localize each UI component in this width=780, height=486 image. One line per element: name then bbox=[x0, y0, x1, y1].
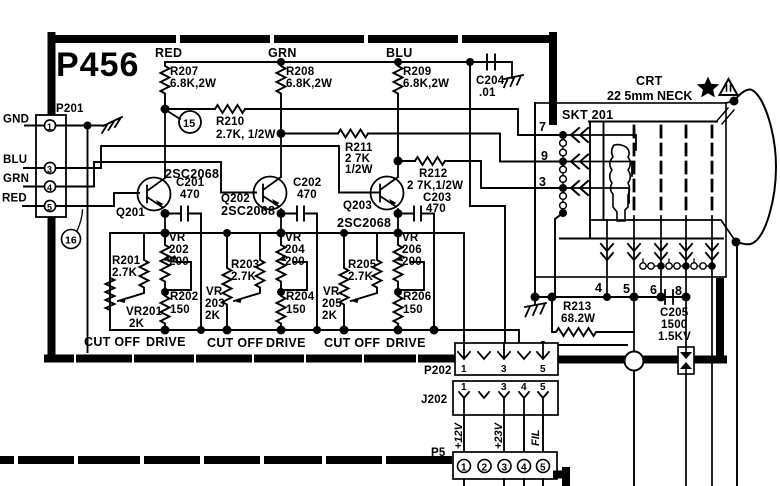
ground chassis symbol at C204 bbox=[504, 62, 523, 87]
wire CRT anode down bbox=[736, 242, 738, 486]
bottom section dashed border bbox=[0, 460, 566, 486]
svg-text:6.8K,2W: 6.8K,2W bbox=[170, 78, 216, 90]
J202 contact 1 bbox=[459, 392, 469, 415]
svg-text:R213: R213 bbox=[563, 301, 591, 313]
svg-text:R207: R207 bbox=[170, 66, 198, 78]
ground bus under socket bbox=[535, 103, 686, 297]
wire ground rail to chassis bbox=[434, 330, 627, 345]
svg-text:RED: RED bbox=[155, 46, 182, 60]
node VR202 top bbox=[161, 229, 170, 238]
svg-text:4: 4 bbox=[521, 463, 527, 474]
svg-text:BLU: BLU bbox=[3, 154, 27, 166]
svg-text:6.8K,2W: 6.8K,2W bbox=[286, 78, 332, 90]
bottom section border corner after P5 bbox=[557, 471, 566, 486]
svg-text:CRT: CRT bbox=[636, 74, 663, 88]
potentiometer VR205 bbox=[340, 233, 349, 330]
J202 contact 3 bbox=[499, 392, 509, 415]
svg-text:15: 15 bbox=[183, 118, 195, 130]
P202 contact 5 bbox=[537, 343, 549, 359]
SKT pin9 row bbox=[560, 162, 632, 177]
resistor R206 bbox=[394, 292, 403, 330]
J202 contact 2 bbox=[479, 392, 489, 398]
feedthrough circle on border bbox=[625, 352, 644, 371]
connector P5 box bbox=[453, 452, 557, 479]
callout circle 16 bbox=[62, 230, 81, 249]
svg-text:1: 1 bbox=[47, 122, 52, 132]
svg-text:7: 7 bbox=[539, 120, 546, 134]
svg-text:3: 3 bbox=[501, 364, 507, 375]
wire GRN input pin4 to Q202 base bbox=[56, 162, 256, 193]
SKT spare contact circles bbox=[560, 135, 567, 211]
node Q203 collector bbox=[394, 157, 403, 166]
svg-text:VR: VR bbox=[285, 232, 302, 244]
P202 contact 2 bbox=[478, 352, 490, 359]
svg-text:3: 3 bbox=[539, 175, 546, 189]
connector P202 box bbox=[455, 343, 558, 375]
potentiometer VR206 bbox=[394, 233, 403, 292]
svg-text:R203: R203 bbox=[231, 259, 259, 271]
node CRT anode bottom bbox=[732, 238, 741, 247]
P5 pin 5 bbox=[537, 460, 550, 473]
CRT base pin wires with plug arrows bbox=[607, 216, 712, 486]
svg-text:SKT 201: SKT 201 bbox=[562, 108, 613, 122]
capacitor C203 bbox=[398, 207, 434, 331]
SKT pin3 row bbox=[560, 188, 629, 203]
transistor Q201 bbox=[116, 109, 219, 233]
svg-text:3: 3 bbox=[502, 463, 508, 474]
svg-text:2SC2068: 2SC2068 bbox=[221, 204, 275, 218]
svg-text:+23V: +23V bbox=[493, 421, 505, 449]
svg-text:3: 3 bbox=[501, 382, 507, 393]
svg-text:GRN: GRN bbox=[268, 46, 297, 60]
capacitor C205 bbox=[661, 290, 686, 304]
svg-text:DRIVE: DRIVE bbox=[146, 335, 186, 349]
svg-text:1/2W: 1/2W bbox=[345, 164, 373, 176]
svg-text:9: 9 bbox=[541, 149, 548, 163]
warning triangle symbol bbox=[720, 79, 738, 95]
svg-text:2K: 2K bbox=[322, 310, 338, 322]
ground chassis symbol at P201 bbox=[102, 117, 122, 133]
connector J202 box bbox=[453, 381, 558, 415]
svg-text:1.5KV: 1.5KV bbox=[658, 331, 691, 343]
svg-text:205: 205 bbox=[322, 298, 342, 310]
svg-text:FIL: FIL bbox=[530, 429, 542, 446]
spark gap bbox=[678, 347, 694, 486]
svg-text:2.7K, 1/2W: 2.7K, 1/2W bbox=[216, 129, 276, 141]
svg-text:6: 6 bbox=[650, 283, 657, 297]
svg-text:J202: J202 bbox=[421, 394, 447, 406]
svg-text:C202: C202 bbox=[293, 177, 321, 189]
svg-text:GRN: GRN bbox=[3, 173, 29, 185]
svg-text:2.7K: 2.7K bbox=[112, 267, 138, 279]
node Q201 emitter bbox=[161, 209, 170, 218]
svg-text:R205: R205 bbox=[348, 259, 377, 271]
capacitor C201 bbox=[165, 207, 201, 331]
svg-text:Q201: Q201 bbox=[116, 207, 145, 219]
P201 pin 1 bbox=[44, 120, 55, 131]
board P456 outline bottom-left dashed border bbox=[48, 355, 452, 363]
resistor R208 bbox=[277, 62, 286, 134]
wire BLU input pin3 to Q203 base bbox=[56, 146, 380, 193]
svg-text:2K: 2K bbox=[129, 318, 145, 330]
svg-text:22 5mm NECK: 22 5mm NECK bbox=[607, 89, 692, 103]
potentiometer VR202 bbox=[161, 233, 170, 292]
capacitor C204 bbox=[470, 55, 512, 70]
P5 pin 4 bbox=[518, 460, 531, 473]
resistor R213 bbox=[552, 297, 634, 336]
svg-text:3: 3 bbox=[47, 165, 52, 175]
svg-text:VR: VR bbox=[169, 232, 186, 244]
resistor R210 wire to SKT pin7 bbox=[165, 109, 560, 135]
svg-text:5: 5 bbox=[540, 463, 546, 474]
CRT gun electrode shape bbox=[610, 145, 631, 221]
node Q203 emitter bbox=[394, 209, 403, 218]
node VR204 bottom bbox=[277, 288, 285, 296]
node P202 pin5 junction bbox=[539, 341, 547, 349]
wire GND pin1 to ground bbox=[56, 125, 103, 127]
svg-text:C205: C205 bbox=[660, 307, 689, 319]
board P456 outline left border bbox=[48, 36, 56, 358]
svg-text:VR201: VR201 bbox=[126, 306, 163, 318]
svg-text:5: 5 bbox=[47, 203, 52, 213]
P201 pin 4 bbox=[44, 181, 55, 192]
svg-text:R210: R210 bbox=[216, 116, 244, 128]
P202 contact 3 bbox=[498, 343, 510, 359]
P202 contact 1 bbox=[458, 343, 470, 359]
svg-text:R206: R206 bbox=[403, 291, 431, 303]
P202 contact 4 bbox=[518, 352, 530, 359]
P5 pin 2 bbox=[478, 460, 491, 473]
svg-text:P201: P201 bbox=[56, 103, 84, 115]
svg-text:GND: GND bbox=[3, 114, 29, 126]
board P456 outline bottom border right solid segment bbox=[558, 282, 723, 360]
resistor R211 wire to SKT pin9 bbox=[281, 134, 560, 162]
node GND junction bbox=[84, 122, 92, 130]
P5 pin 1 bbox=[458, 460, 471, 473]
node Q202 emitter bbox=[277, 209, 286, 218]
wire GND label to pin1 bbox=[25, 125, 44, 127]
svg-text:R209: R209 bbox=[403, 66, 431, 78]
P201 pin 3 bbox=[44, 162, 55, 173]
svg-text:R212: R212 bbox=[419, 168, 447, 180]
svg-text:C204: C204 bbox=[476, 75, 505, 87]
svg-text:2 7K,1/2W: 2 7K,1/2W bbox=[407, 180, 463, 192]
svg-text:R201: R201 bbox=[112, 255, 141, 267]
svg-text:16: 16 bbox=[65, 235, 77, 247]
svg-text:RED: RED bbox=[2, 193, 27, 205]
node C204 rail junction bbox=[466, 58, 474, 66]
wire RED label to pin5 bbox=[23, 205, 44, 207]
svg-text:150: 150 bbox=[403, 304, 423, 316]
svg-text:2K: 2K bbox=[205, 310, 221, 322]
resistor R205 bbox=[351, 233, 382, 301]
svg-text:P202: P202 bbox=[424, 365, 452, 377]
resistor R207 bbox=[161, 62, 170, 109]
CRT outline bbox=[592, 101, 736, 242]
resistor R212 wire to SKT pin3 bbox=[398, 161, 560, 188]
svg-text:R204: R204 bbox=[286, 291, 315, 303]
wire GRN label to pin4 bbox=[24, 186, 44, 188]
svg-text:2.7K: 2.7K bbox=[348, 271, 374, 283]
svg-text:5: 5 bbox=[623, 282, 630, 296]
svg-text:R202: R202 bbox=[170, 291, 198, 303]
node VR202 bottom bbox=[161, 288, 169, 296]
svg-text:+12V: +12V bbox=[453, 421, 465, 449]
wire BLU label to pin3 bbox=[24, 167, 44, 169]
node Q202 collector bbox=[277, 129, 286, 138]
resistor R209 bbox=[394, 62, 403, 161]
svg-text:1: 1 bbox=[461, 463, 467, 474]
wire supply to P202 pin3 bbox=[470, 62, 505, 343]
bottom ground rail bbox=[110, 233, 434, 330]
capacitor C202 bbox=[281, 207, 317, 331]
CRT neck break hatches bbox=[716, 108, 734, 124]
svg-text:DRIVE: DRIVE bbox=[266, 336, 306, 350]
svg-text:CUT OFF: CUT OFF bbox=[207, 336, 263, 350]
potentiometer VR201 bbox=[106, 278, 115, 310]
resistor R201 bbox=[118, 233, 149, 301]
J202 contact 4 bbox=[519, 392, 529, 415]
svg-text:200: 200 bbox=[285, 256, 305, 268]
node VR206 top bbox=[394, 229, 403, 238]
node VR204 top bbox=[277, 229, 286, 238]
svg-text:1500: 1500 bbox=[661, 319, 687, 331]
wires J202 to P5 bbox=[464, 415, 543, 452]
svg-text:2: 2 bbox=[482, 463, 488, 474]
bottom rail junction dots bbox=[161, 229, 439, 335]
SKT pin7 row bbox=[560, 135, 636, 150]
resistor R202 bbox=[161, 292, 170, 330]
node BLU rail junction bbox=[394, 58, 402, 66]
svg-text:5: 5 bbox=[540, 382, 546, 393]
chassis ground below bus bbox=[525, 297, 546, 316]
node VR206 bottom bbox=[394, 288, 402, 296]
svg-text:DRIVE: DRIVE bbox=[386, 336, 426, 350]
P5 pin 3 bbox=[498, 460, 511, 473]
board P456 outline right border dashes bbox=[549, 36, 557, 121]
svg-text:BLU: BLU bbox=[386, 46, 413, 60]
svg-text:200: 200 bbox=[402, 256, 422, 268]
svg-text:202: 202 bbox=[169, 244, 189, 256]
svg-text:VR: VR bbox=[402, 232, 419, 244]
svg-text:203: 203 bbox=[205, 298, 225, 310]
svg-text:68.2W: 68.2W bbox=[561, 313, 595, 325]
svg-text:470: 470 bbox=[426, 203, 446, 215]
wire GND down the board bbox=[87, 126, 89, 353]
J202 contact 5 bbox=[538, 392, 548, 415]
callout circle 15 bbox=[179, 111, 201, 133]
svg-text:CUT OFF: CUT OFF bbox=[84, 335, 140, 349]
svg-text:1: 1 bbox=[461, 382, 467, 393]
node GRN rail junction bbox=[277, 58, 285, 66]
svg-text:470: 470 bbox=[180, 189, 200, 201]
svg-text:150: 150 bbox=[170, 304, 190, 316]
svg-text:2.7K: 2.7K bbox=[231, 271, 257, 283]
svg-text:C201: C201 bbox=[176, 177, 205, 189]
svg-text:CUT OFF: CUT OFF bbox=[324, 336, 380, 350]
P201 pin 5 bbox=[44, 200, 55, 211]
node CRT anode top bbox=[730, 97, 739, 106]
svg-text:6.8K,2W: 6.8K,2W bbox=[403, 78, 449, 90]
svg-text:204: 204 bbox=[285, 244, 305, 256]
resistor R204 bbox=[277, 292, 286, 330]
transistor Q202 bbox=[221, 138, 287, 233]
socket heater contact circles bbox=[640, 259, 710, 269]
emitter rail bbox=[110, 233, 464, 343]
resistor R203 bbox=[234, 233, 265, 301]
svg-text:Q203: Q203 bbox=[343, 200, 372, 212]
svg-text:4: 4 bbox=[47, 183, 52, 193]
svg-text:P456: P456 bbox=[56, 46, 139, 84]
connector P201 box bbox=[36, 115, 66, 217]
svg-text:8: 8 bbox=[675, 284, 682, 298]
svg-text:200: 200 bbox=[169, 256, 189, 268]
wires below P5 bbox=[464, 479, 543, 486]
supply rail top bbox=[165, 61, 512, 63]
svg-text:4: 4 bbox=[521, 382, 527, 393]
svg-text:150: 150 bbox=[286, 304, 306, 316]
CRT gun inner lines bbox=[560, 122, 723, 239]
wire RED input pin5 to Q201 base bbox=[56, 193, 139, 206]
wire feedthrough down bbox=[633, 371, 635, 486]
CRT grid dashed electrodes bbox=[634, 126, 712, 216]
node Q201 collector bbox=[161, 105, 170, 114]
wire SKT chain to ground bus bbox=[555, 213, 563, 297]
potentiometer VR204 bbox=[277, 233, 286, 292]
svg-text:206: 206 bbox=[402, 244, 422, 256]
star symbol bbox=[697, 77, 719, 98]
svg-text:R208: R208 bbox=[286, 66, 315, 78]
svg-text:5: 5 bbox=[540, 364, 546, 375]
svg-text:1: 1 bbox=[461, 364, 467, 375]
svg-text:4: 4 bbox=[595, 281, 602, 295]
svg-text:.01: .01 bbox=[479, 87, 496, 99]
transistor Q203 bbox=[337, 166, 404, 234]
svg-text:2SC2068: 2SC2068 bbox=[337, 216, 391, 230]
board P456 outline top border bbox=[48, 36, 723, 360]
svg-text:470: 470 bbox=[297, 189, 317, 201]
potentiometer VR203 bbox=[223, 233, 232, 330]
socket SKT201 box bbox=[535, 103, 726, 277]
svg-text:VR: VR bbox=[206, 286, 223, 298]
svg-text:VR: VR bbox=[323, 286, 340, 298]
CRT bell bbox=[734, 89, 776, 244]
